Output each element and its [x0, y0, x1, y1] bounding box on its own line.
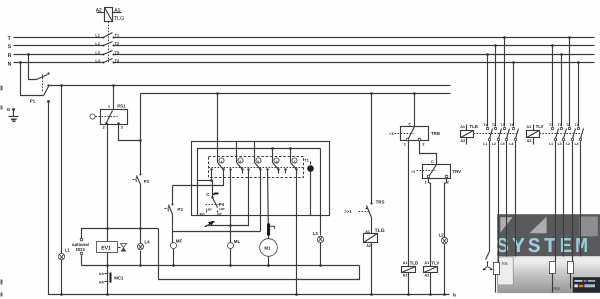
TLB bank linkage dashed: [474, 133, 518, 135]
svg-text:4: 4: [276, 160, 278, 164]
contactor coil TLB (power bank): [461, 125, 474, 145]
wire: pos2 left terminal down to ML: [230, 170, 232, 243]
node: TLV pole2 on bus R: [560, 53, 563, 56]
svg-text:P3: P3: [144, 179, 150, 184]
contactor coil TLG: [364, 234, 378, 243]
svg-text:T3: T3: [115, 51, 119, 55]
wire: junction down to P3: [140, 141, 142, 175]
TLG contact pole L2/T2 on bus S: [95, 42, 119, 47]
svg-text:TLV: TLV: [431, 260, 439, 265]
motor M1 (compressor): [260, 239, 278, 257]
node: TLV pole3 on bus T: [568, 36, 571, 39]
node: L3 on wire E: [319, 264, 322, 267]
svg-text:T1: T1: [304, 158, 308, 162]
svg-text:1: 1: [220, 160, 222, 164]
wire: E right end drop: [159, 229, 360, 280]
contactor coil TLV: [424, 267, 438, 273]
lamp L4: [137, 243, 143, 249]
wire F: y=225.3 to pos3: [206, 170, 249, 226]
wire: wire B down to TRB C: [414, 94, 416, 127]
svg-text:TLB: TLB: [410, 260, 419, 265]
wire: TRV-2 down to L2: [445, 179, 447, 238]
wire C: optional branch y=228.4: [82, 229, 159, 239]
svg-text:A1: A1: [114, 7, 120, 13]
clipped margin mark (left, ground): [1, 106, 3, 110]
svg-text:A2: A2: [424, 274, 429, 278]
wire R to P1 upper pole: [29, 55, 37, 80]
clipped margin mark (left, lower): [1, 293, 3, 297]
wire: MF-M1 link y=231.2: [173, 231, 261, 233]
wire: ML to wire E: [230, 249, 232, 266]
timer contact NO (140deg): [200, 208, 213, 217]
ground G symbol: [7, 107, 19, 121]
node: TLB on bottom bus: [407, 293, 410, 296]
svg-text:N: N: [8, 61, 12, 67]
lamp L3: [317, 236, 323, 242]
svg-text:L2: L2: [566, 142, 570, 146]
bus line N: [8, 61, 595, 67]
sensor bulb T1 (filled): [307, 162, 314, 216]
optional contact DD3 (open terminals): [80, 238, 83, 255]
node: TLB pole1 on bus R: [486, 53, 489, 56]
wire: klixon to M1: [268, 236, 270, 239]
svg-text:TLB: TLB: [469, 124, 478, 129]
svg-text:R: R: [8, 53, 12, 59]
svg-text:NC: NC: [217, 213, 222, 217]
timer P4 linkage dashed: [206, 204, 219, 206]
node: TLB pole3 on bus T: [503, 36, 506, 39]
svg-text:L1: L1: [65, 247, 71, 252]
selector linkage dashed line: [209, 167, 304, 169]
svg-text:A1: A1: [424, 261, 429, 265]
wire: feed from wire B to position 1: [217, 94, 219, 163]
node: pos5 feed on inner box top: [289, 147, 292, 150]
svg-text:L4: L4: [509, 142, 513, 146]
node: TLV pole1 on bus S: [551, 44, 554, 47]
svg-text:T2: T2: [115, 42, 119, 46]
wire: diagonal to fan: [486, 252, 490, 260]
relay coil TLG (main switch coil, top): [97, 8, 122, 22]
selector position 4: [266, 158, 279, 174]
switch P1 upper pole arm: [37, 72, 50, 79]
wire: TRS branch from wire B: [371, 94, 373, 204]
svg-text:140°: 140°: [219, 207, 226, 211]
wire: pos4 feed: [272, 149, 274, 163]
svg-text:1: 1: [404, 142, 406, 146]
svg-text:3: 3: [121, 125, 123, 129]
node: PS1 tap on wire A: [112, 84, 115, 87]
node: L2 on bottom bus: [443, 293, 446, 296]
svg-text:3: 3: [257, 160, 259, 164]
svg-text:A1: A1: [365, 230, 370, 234]
selector position 2: [229, 158, 243, 174]
wire: L4 to wire E: [140, 251, 142, 266]
overload protector (klixon) on M1 line: [267, 224, 275, 236]
svg-text:NA: NA: [99, 280, 104, 284]
svg-text:>1: >1: [389, 132, 393, 136]
enclosure box (inner): [198, 149, 321, 216]
wire: TLB coil to bottom bus: [408, 273, 410, 295]
svg-text:1: 1: [108, 105, 110, 109]
wire: wire A down to PS1 pin 1: [113, 86, 115, 110]
wire: TRB-2 over to TRV C: [420, 141, 437, 165]
svg-text:T2: T2: [566, 123, 570, 127]
node: MF on wire E: [172, 264, 175, 267]
thermostat contact TRS: [359, 202, 373, 217]
timer contact NC (140deg): [217, 207, 226, 216]
TLV pole 1 (T1/L1): [549, 46, 558, 262]
bus line S: [8, 44, 595, 50]
motor ML (lamp motor): [228, 243, 234, 249]
selector switch dashed box: [209, 157, 304, 178]
wire: timer node to inner box edge: [198, 180, 212, 182]
node: TLV on bottom bus: [429, 293, 432, 296]
svg-text:ML: ML: [234, 239, 241, 244]
svg-text:L3: L3: [501, 142, 505, 146]
svg-text:A2: A2: [96, 7, 102, 13]
svg-text:SYSTEM: SYSTEM: [496, 236, 591, 259]
selector position 5: [284, 158, 297, 174]
node: MC1 on bottom bus: [106, 293, 109, 296]
wire E: lamp/motor return y=265.25: [82, 265, 360, 267]
contactor coil TLB: [402, 267, 416, 273]
svg-text:N: N: [453, 293, 456, 298]
svg-text:PS1: PS1: [117, 103, 126, 108]
svg-text:TRS: TRS: [376, 199, 385, 204]
svg-text:L2: L2: [95, 42, 99, 46]
svg-text:MF: MF: [176, 239, 183, 244]
node: TLB pole2 on bus S: [494, 44, 497, 47]
heater resistor R2 (right): [568, 262, 574, 274]
svg-text:T3: T3: [501, 123, 505, 127]
wire: RB to bottom: [495, 275, 497, 293]
svg-text:A2: A2: [403, 274, 408, 278]
thermal fuse arrow: [204, 221, 214, 227]
svg-text:RM: RM: [553, 286, 560, 291]
svg-text:A1: A1: [526, 125, 531, 129]
thermostat relay TRB: [395, 127, 429, 141]
thermostat contact P3: [133, 174, 142, 185]
P1 linkage dashed: [42, 75, 44, 93]
wire: DD3 to wire E: [81, 255, 83, 266]
wire: TRS to TLG coil: [371, 218, 373, 234]
svg-text:T4: T4: [575, 123, 579, 127]
svg-text:2: 2: [422, 143, 424, 147]
TLG contact pole L3/T3 on bus R: [95, 51, 119, 56]
svg-text:P2: P2: [177, 207, 183, 212]
svg-text:2: 2: [103, 125, 105, 129]
TLV bank linkage dashed: [540, 133, 583, 135]
svg-text:>1: >1: [411, 170, 415, 174]
fan symbol: [483, 262, 493, 271]
heater resistor R1 (left): [550, 262, 556, 274]
svg-text:T1: T1: [549, 123, 553, 127]
node: L4 on wire E: [139, 264, 142, 267]
svg-text:T3: T3: [558, 123, 562, 127]
timer motor symbol C: [206, 192, 218, 199]
svg-text:L4: L4: [144, 239, 150, 244]
wire: L1 to bottom bus: [61, 260, 63, 295]
svg-text:T2: T2: [492, 123, 496, 127]
node: selector feed tap on wire B: [216, 92, 219, 95]
wire: junction up to wire B: [140, 94, 142, 141]
svg-text:A2: A2: [366, 244, 371, 248]
wire B: PS1-3 feeder y=93: [141, 93, 451, 95]
node: ML tap on wire F: [229, 224, 232, 227]
svg-text:>>1: >>1: [344, 209, 352, 214]
wire: TRB-1 down to TLB coil: [408, 141, 410, 267]
svg-text:A2: A2: [460, 139, 465, 143]
TLV pole 4 (T4/L4): [575, 63, 584, 257]
TLB pole 3 (T3/L3): [501, 38, 510, 257]
wire: timer node down to timer C: [212, 181, 214, 198]
wire: MF to wire E: [173, 249, 175, 266]
svg-text:5: 5: [294, 160, 296, 164]
svg-text:TRV: TRV: [452, 169, 461, 174]
svg-text:TLG: TLG: [114, 16, 125, 22]
wire: P2 branch down: [172, 186, 174, 205]
thermostat relay TRV: [417, 165, 451, 179]
TLV pole 2 (T3/L3): [558, 55, 567, 257]
svg-text:L3: L3: [95, 51, 99, 55]
wire: EV1 down through MC1 to bus: [107, 253, 109, 295]
node: pos4 feed on inner box top: [271, 147, 274, 150]
svg-text:TLV: TLV: [536, 124, 544, 129]
wire: M1 to wire E: [268, 257, 270, 266]
svg-text:L2: L2: [492, 142, 496, 146]
enclosure box (outer): [192, 142, 330, 216]
svg-text:G: G: [7, 107, 11, 112]
svg-text:C: C: [431, 160, 434, 164]
wire N to P1 lower pole: [21, 63, 44, 96]
wire: pos1 right terminal down to P2 branch: [173, 170, 224, 186]
lamp L2: [441, 237, 447, 243]
node: junction at (140.6,140): [139, 139, 142, 142]
wire: PS1 pin3 down and over: [119, 124, 141, 141]
wire: inner box right edge down to L3: [320, 149, 322, 236]
wire: P2 down to MF: [172, 215, 174, 243]
svg-text:A1: A1: [403, 261, 408, 265]
node: TLV pole4 on bus N: [577, 61, 580, 64]
wire: PS1 pin2 down to EV1: [107, 124, 109, 242]
node: timer tap: [210, 179, 213, 182]
node: pos5 return on bottom bus: [295, 293, 298, 296]
TLB pole 2 (T2/L2): [492, 46, 502, 263]
wire: TRV-1 down to TLV coil: [429, 179, 431, 267]
TLG contact pole L4/T4 on bus N: [95, 59, 120, 64]
svg-text:S: S: [8, 44, 12, 50]
svg-text:1: 1: [425, 180, 427, 184]
thermal cutout MC1: [105, 273, 112, 283]
selector position 3: [247, 158, 261, 232]
wire: pos3 feed from outer box top: [254, 142, 256, 163]
timer P4 contact arm: [213, 198, 218, 208]
svg-text:A2: A2: [527, 139, 532, 143]
svg-text:P1: P1: [30, 99, 36, 104]
wire: pos5 feed: [290, 149, 292, 163]
contactor coil TLV (power bank): [527, 125, 540, 145]
node: L4 line crossing wire C: [139, 227, 142, 230]
wire: pos2 feed from outer box top: [236, 142, 238, 163]
wire: pos5 right terminal to bottom bus: [296, 170, 298, 295]
junction on R for P1: [27, 53, 30, 56]
svg-text:L1: L1: [483, 142, 487, 146]
node: TRB tap on wire B: [413, 92, 416, 95]
wire: return riser x=48.7 with endpoint node: [47, 100, 449, 294]
svg-text:L3: L3: [313, 231, 319, 236]
svg-text:NO: NO: [200, 212, 205, 216]
mechanical linkage (dashed) of TLG contacts: [108, 22, 110, 64]
wire A: P1 output feeder y=85.7: [49, 85, 451, 87]
pressure switch PS1: [90, 110, 128, 125]
wire: resistor R1 to bottom: [552, 274, 554, 293]
wire: L3 to wire E: [320, 243, 322, 266]
solenoid valve EV1: [97, 242, 118, 253]
thermostat contact P2: [165, 204, 174, 215]
motor MF (fan): [171, 243, 177, 249]
TLG contact pole L1/T1 on bus T: [95, 33, 119, 39]
wire: L1 lamp branch: [61, 86, 63, 254]
svg-text:T1: T1: [115, 34, 119, 38]
WATERMARK: [496, 214, 600, 293]
node: L1 on bottom bus: [60, 293, 63, 296]
svg-text:L2: L2: [439, 233, 445, 238]
clipped margin mark (left, mid): [1, 86, 3, 91]
wire: P3 down through L4: [140, 185, 142, 244]
svg-text:TLG: TLG: [375, 228, 385, 234]
node: ML on wire E: [229, 264, 232, 267]
node: EV1 line on wire E: [106, 264, 109, 267]
svg-text:EV1: EV1: [101, 245, 111, 251]
svg-text:MC1: MC1: [114, 275, 124, 280]
svg-text:L4: L4: [575, 142, 579, 146]
svg-text:P4: P4: [219, 202, 225, 207]
svg-text:RB: RB: [502, 261, 508, 266]
node: TLG on bottom bus: [370, 293, 373, 296]
svg-text:2: 2: [447, 181, 449, 185]
svg-text:2: 2: [239, 160, 241, 164]
selector position 1: [210, 158, 224, 171]
node: M1 on wire E: [267, 264, 270, 267]
node: L1 tap on wire A: [60, 84, 63, 87]
clipped margin mark (left, bottom): [1, 280, 3, 285]
node: EV1 tap on wire C: [106, 227, 109, 230]
wire: resistor R2 to bottom: [570, 274, 572, 289]
svg-text:T4: T4: [509, 123, 513, 127]
bus line R: [8, 53, 595, 59]
wire: TLV coil to bottom bus: [430, 273, 432, 295]
heater resistor RB: [494, 263, 500, 275]
valve symbol at EV1: [118, 244, 127, 252]
wire: L2 to bottom bus: [444, 244, 446, 295]
wire: TLG coil to bottom bus: [371, 243, 373, 295]
node: TRS tap on wire B: [370, 92, 373, 95]
lamp L1: [58, 253, 64, 259]
svg-text:C: C: [408, 122, 411, 126]
svg-text:L3: L3: [558, 142, 562, 146]
svg-text:A1: A1: [460, 125, 465, 129]
bus line T: [8, 36, 595, 42]
svg-text:DD3: DD3: [76, 247, 85, 252]
svg-text:TRB: TRB: [431, 131, 440, 136]
TLV pole 3 (T2/L2): [566, 38, 575, 262]
switch P1 lower pole arm: [44, 84, 50, 95]
node: TLB pole4 on bus N: [512, 61, 515, 64]
svg-text:L1: L1: [549, 142, 553, 146]
junction on N for P1: [19, 61, 22, 64]
svg-text:M1: M1: [264, 245, 271, 250]
svg-text:NA: NA: [99, 272, 104, 276]
svg-text:T1: T1: [483, 123, 487, 127]
wire: pos1 left terminal down to timer node: [211, 170, 213, 181]
TLB pole 1 (T1/L1): [483, 55, 492, 252]
wire: pos4 left terminal down to M1: [267, 170, 270, 224]
TLB pole 4 (T4/L4): [509, 63, 518, 257]
svg-text:L1: L1: [95, 34, 99, 38]
